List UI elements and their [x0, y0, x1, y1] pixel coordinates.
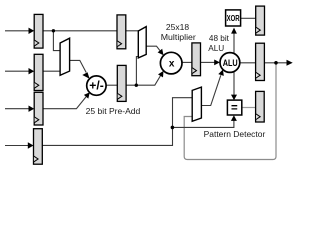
- arrow Z mux to ALU: [218, 70, 224, 76]
- wire A reg to mux: [43, 70, 61, 72]
- svg-text:48 bit: 48 bit: [209, 34, 230, 43]
- wire ALU down to comparator: [233, 72, 235, 96]
- arrow input A: [29, 68, 35, 74]
- svg-text:=: =: [231, 102, 238, 114]
- wire input A: [5, 70, 29, 72]
- node AD tap: [135, 84, 138, 87]
- wire ALU to P reg: [240, 62, 256, 64]
- arrow AD node to multiplier: [158, 71, 164, 78]
- register pattern out: [256, 91, 265, 122]
- wire Z mux to ALU: [201, 75, 221, 105]
- wire C reg to Z mux: [42, 98, 192, 146]
- arrow input D: [29, 106, 35, 112]
- svg-text:ALU: ALU: [223, 58, 238, 68]
- wire AD reg out to multiplier: [126, 74, 162, 86]
- wire D reg to pre-adder: [43, 97, 86, 109]
- wire XOR to reg: [241, 17, 256, 19]
- register D: [34, 92, 43, 125]
- mux AD (multiplier input mux): [138, 27, 146, 58]
- node P output: [274, 61, 278, 65]
- arrow D to pre-adder: [84, 92, 90, 98]
- wire AD mux to multiplier: [146, 46, 161, 52]
- register A: [34, 54, 43, 90]
- mux AB (pre-adder input mux): [60, 38, 70, 75]
- register M: [192, 43, 201, 76]
- wire M reg to ALU: [200, 61, 214, 63]
- svg-text:25x18: 25x18: [166, 22, 189, 32]
- svg-text:25 bit Pre-Add: 25 bit Pre-Add: [86, 106, 141, 116]
- multiplier circle: [160, 52, 182, 74]
- register AD: [117, 65, 126, 101]
- node C branch: [171, 126, 175, 130]
- svg-text:+/-: +/-: [89, 80, 104, 92]
- register P: [256, 43, 265, 80]
- register B2: [117, 15, 126, 49]
- wire input B: [5, 30, 29, 32]
- svg-text:Multiplier: Multiplier: [161, 32, 196, 42]
- ALU circle: [220, 53, 240, 73]
- wire P output: [264, 62, 287, 64]
- wire AD node up to AD mux: [136, 57, 138, 86]
- node B tap: [52, 29, 55, 32]
- wire multiplier to M reg: [182, 61, 192, 63]
- arrow M reg to ALU: [214, 60, 220, 66]
- wire pre-adder to AD reg: [106, 84, 118, 86]
- comparator box: [227, 100, 241, 115]
- arrow P output: [287, 60, 293, 66]
- register XOR out: [256, 6, 265, 35]
- wire input C: [5, 145, 28, 147]
- wire node B tap down to mux: [53, 31, 60, 51]
- arrow ALU to comparator: [231, 95, 237, 101]
- wire ALU up to XOR: [233, 33, 235, 54]
- arrow input C: [28, 142, 34, 148]
- mux Z: [192, 87, 201, 121]
- wire input D: [5, 108, 29, 110]
- wire C branch to comparator: [173, 121, 234, 128]
- wire feedback loop P output to Z mux (gray): [184, 64, 276, 160]
- svg-text:Pattern Detector: Pattern Detector: [204, 129, 266, 139]
- register B1: [34, 14, 43, 48]
- wire comparator to reg (gray): [242, 107, 256, 109]
- arrow input B: [29, 28, 35, 34]
- arrow mux1 to pre-adder: [82, 72, 89, 79]
- XOR box: [226, 10, 241, 26]
- pre-adder circle: [87, 76, 106, 95]
- svg-text:XOR: XOR: [227, 14, 240, 23]
- arrow C branch to comparator: [231, 115, 237, 121]
- register C: [34, 129, 43, 165]
- svg-text:x: x: [169, 58, 175, 69]
- wire mux1 to pre-adder: [69, 60, 86, 72]
- wire B reg2 to AD mux: [126, 30, 139, 32]
- svg-text:ALU: ALU: [208, 44, 224, 53]
- arrow AD mux to multiplier: [158, 49, 164, 55]
- wire B reg1 to B reg2: [43, 30, 118, 32]
- arrow ALU to XOR: [231, 28, 237, 34]
